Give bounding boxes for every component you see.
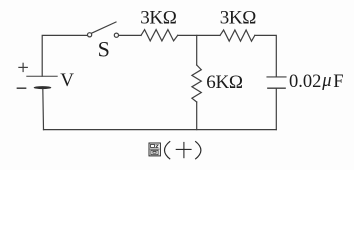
svg-text:6KΩ: 6KΩ [206,72,243,93]
svg-text:3KΩ: 3KΩ [140,8,176,29]
svg-text:V: V [60,70,74,91]
svg-text:3KΩ: 3KΩ [220,8,256,29]
svg-text:0.02μF: 0.02μF [289,71,343,92]
svg-text:S: S [98,37,110,62]
